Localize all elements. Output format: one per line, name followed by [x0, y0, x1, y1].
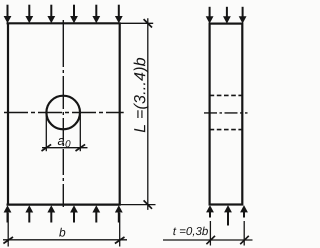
dimension a0 line	[42, 147, 88, 149]
label L = (3...4)b	[134, 58, 149, 132]
plate front view outline	[8, 23, 120, 204]
dimension b extension line right	[119, 213, 121, 247]
dimension b tick right	[115, 237, 125, 244]
label t = 0,3b	[173, 227, 208, 237]
dimension a0 extension line left	[45, 115, 47, 151]
side view centerline	[204, 112, 248, 114]
dimension t line	[163, 239, 253, 241]
paper background	[0, 0, 253, 248]
side view hidden line bottom of hole	[210, 129, 243, 131]
bottom reaction arrows front view	[8, 212, 119, 223]
hole circle	[46, 96, 80, 130]
side view outline	[210, 24, 243, 205]
top load arrows front view	[8, 5, 119, 17]
dimension t tick right	[240, 236, 249, 244]
dimension a0 extension line right	[79, 115, 81, 151]
horizontal centerline of front view	[4, 112, 124, 114]
dimension b tick left	[3, 237, 13, 244]
extension line bottom (to L dimension)	[120, 204, 156, 206]
extension line top (to L dimension)	[120, 22, 153, 24]
dimension L line	[147, 18, 149, 210]
dimension t extension line right	[243, 221, 245, 246]
side view top load arrows	[210, 7, 243, 17]
dimension a0 tick right	[76, 144, 86, 151]
label b	[59, 228, 65, 237]
side view bottom reaction arrows	[210, 212, 244, 226]
side view hidden line top of hole	[210, 94, 243, 96]
dimension a0 tick left	[42, 144, 52, 151]
label a0	[58, 138, 71, 147]
dimension L tick bottom	[144, 200, 152, 208]
dimension t extension line left	[209, 221, 211, 246]
vertical centerline of front view	[62, 20, 64, 207]
dimension L tick top	[144, 19, 152, 27]
dimension b extension line left	[7, 213, 9, 247]
dimension t tick left	[206, 236, 215, 244]
dimension b line	[3, 239, 127, 241]
